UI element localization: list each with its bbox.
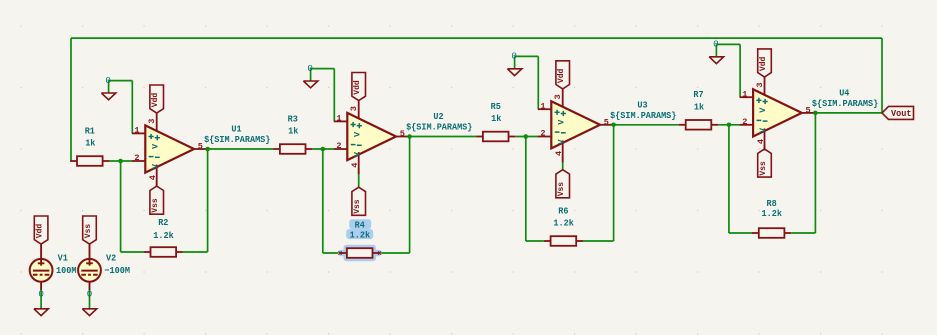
svg-text:1: 1 [336, 114, 341, 124]
svg-text:Vss: Vss [557, 182, 566, 197]
svg-text:U4: U4 [839, 88, 850, 99]
svg-text:V: V [556, 139, 566, 145]
svg-text:5: 5 [198, 142, 203, 152]
svg-text:2: 2 [742, 117, 747, 127]
svg-text:4: 4 [350, 163, 360, 168]
svg-text:1k: 1k [288, 126, 299, 137]
svg-text:${SIM.PARAMS}: ${SIM.PARAMS} [610, 110, 676, 121]
svg-text:V2: V2 [106, 252, 116, 263]
svg-text:Vdd: Vdd [759, 57, 768, 72]
svg-text:0: 0 [713, 39, 719, 50]
svg-text:Vss: Vss [353, 199, 362, 214]
svg-text:Vdd: Vdd [35, 224, 44, 239]
svg-text:U2: U2 [433, 111, 443, 122]
svg-text:5: 5 [604, 117, 609, 127]
svg-text:4: 4 [554, 151, 564, 156]
svg-text:3: 3 [147, 119, 157, 124]
svg-text:R7: R7 [693, 89, 703, 100]
svg-text:V: V [556, 119, 566, 125]
svg-text:Vdd: Vdd [353, 80, 362, 95]
svg-text:V1: V1 [58, 252, 69, 263]
svg-text:V: V [150, 163, 160, 169]
svg-text:0: 0 [307, 63, 313, 74]
svg-text:R6: R6 [558, 206, 568, 217]
svg-text:1.2k: 1.2k [350, 229, 371, 240]
svg-text:3: 3 [349, 106, 359, 111]
svg-text:${SIM.PARAMS}: ${SIM.PARAMS} [204, 134, 270, 145]
svg-text:4: 4 [148, 175, 158, 180]
svg-text:V: V [758, 107, 768, 113]
svg-text:1.2k: 1.2k [153, 230, 174, 241]
svg-text:U1: U1 [231, 124, 242, 135]
svg-text:Vdd: Vdd [557, 69, 566, 84]
svg-text:R5: R5 [491, 101, 502, 112]
svg-text:Vss: Vss [84, 224, 93, 239]
svg-text:U3: U3 [637, 99, 648, 110]
svg-text:2: 2 [134, 153, 139, 163]
svg-text:Vdd: Vdd [151, 93, 160, 108]
svg-text:Vout: Vout [891, 108, 912, 119]
svg-text:1k: 1k [85, 138, 96, 149]
svg-text:1k: 1k [694, 101, 705, 112]
svg-text:${SIM.PARAMS}: ${SIM.PARAMS} [406, 122, 472, 133]
svg-text:V: V [758, 127, 768, 133]
svg-text:${SIM.PARAMS}: ${SIM.PARAMS} [812, 98, 878, 109]
svg-text:1: 1 [134, 126, 139, 136]
svg-text:V: V [352, 131, 362, 137]
svg-text:V: V [150, 143, 160, 149]
svg-text:1: 1 [742, 89, 747, 99]
svg-text:Vss: Vss [759, 161, 768, 176]
svg-text:R1: R1 [85, 125, 96, 136]
svg-text:R2: R2 [158, 217, 168, 228]
svg-text:1: 1 [540, 101, 545, 111]
svg-text:5: 5 [806, 106, 811, 116]
svg-text:0: 0 [511, 51, 517, 62]
svg-text:0: 0 [105, 75, 111, 86]
svg-text:1.2k: 1.2k [553, 218, 574, 229]
svg-text:−100M: −100M [104, 265, 130, 276]
svg-text:3: 3 [553, 94, 563, 99]
svg-text:1k: 1k [491, 113, 502, 124]
svg-text:0: 0 [87, 289, 93, 300]
svg-text:R3: R3 [288, 113, 299, 124]
svg-text:1.2k: 1.2k [762, 208, 783, 219]
svg-text:2: 2 [540, 129, 545, 139]
svg-text:V: V [352, 151, 362, 157]
svg-text:2: 2 [336, 141, 341, 151]
svg-text:0: 0 [38, 289, 44, 300]
svg-text:100M: 100M [56, 265, 77, 276]
svg-text:Vss: Vss [151, 198, 160, 213]
svg-text:5: 5 [400, 129, 405, 139]
svg-text:4: 4 [756, 139, 766, 144]
svg-text:3: 3 [755, 82, 765, 87]
